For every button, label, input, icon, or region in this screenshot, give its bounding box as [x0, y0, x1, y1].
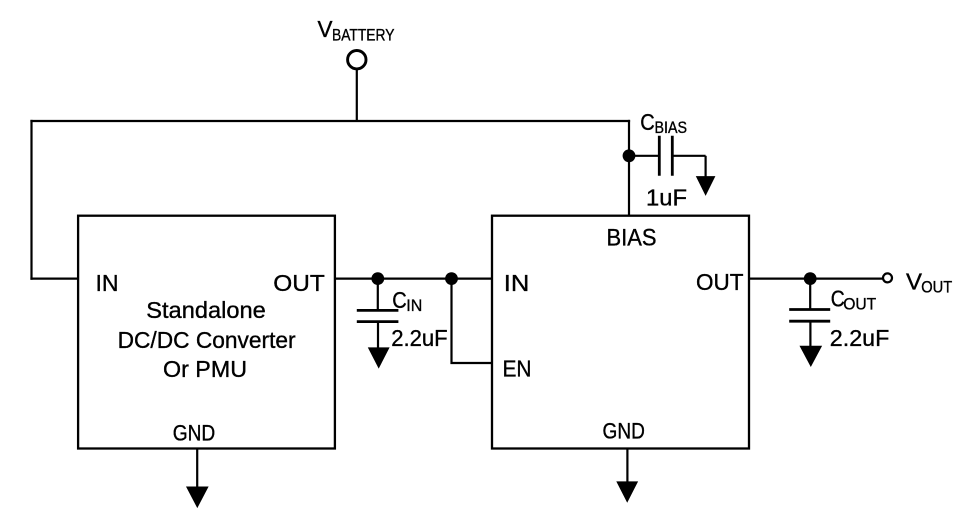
ground: right GND arrow — [617, 482, 637, 502]
wire: COUT drop — [809, 279, 811, 310]
ground: left GND arrow — [187, 487, 208, 507]
svg-text:BIAS: BIAS — [655, 119, 688, 137]
wire: CIN drop — [377, 279, 379, 311]
junction dot: EN node — [445, 272, 458, 285]
wire: CBIAS left lead — [629, 155, 658, 157]
svg-text:2.2uF: 2.2uF — [830, 325, 890, 351]
svg-text:OUT: OUT — [921, 278, 952, 296]
terminal: VOUT open circle — [883, 273, 892, 282]
wire: right GND lead — [626, 448, 628, 484]
capacitor CBIAS plates — [659, 136, 672, 176]
svg-text:C: C — [640, 109, 655, 135]
ground: CBIAS arrow — [697, 177, 715, 195]
junction dot: COUT node — [804, 272, 817, 285]
svg-text:DC/DC Converter: DC/DC Converter — [118, 327, 296, 353]
wire: left riser — [30, 120, 32, 280]
svg-text:2.2uF: 2.2uF — [391, 325, 448, 351]
wire: OUT-to-IN bus between boxes — [334, 278, 493, 280]
junction dot: BIAS node — [623, 149, 636, 162]
wire: left GND lead — [196, 448, 198, 489]
ground: COUT arrow — [800, 346, 821, 366]
svg-text:GND: GND — [173, 420, 216, 445]
wire: VBATTERY drop — [356, 69, 358, 122]
svg-text:IN: IN — [96, 270, 119, 296]
capacitor COUT plates — [789, 310, 830, 322]
svg-text:IN: IN — [406, 297, 422, 315]
terminal: VBATTERY open circle — [348, 51, 366, 69]
svg-text:1uF: 1uF — [646, 185, 687, 211]
ground: CIN arrow — [369, 348, 389, 368]
svg-text:BATTERY: BATTERY — [332, 27, 395, 45]
svg-text:OUT: OUT — [843, 295, 876, 313]
box: LDO with BIAS/IN/EN/OUT/GND — [492, 216, 749, 449]
wire: IN stub into left box — [30, 278, 79, 280]
wire: CBIAS right lead — [672, 155, 706, 157]
wire: CBIAS ground drop — [704, 156, 706, 179]
svg-text:V: V — [906, 269, 923, 295]
svg-text:GND: GND — [603, 418, 645, 443]
svg-text:BIAS: BIAS — [607, 225, 657, 252]
svg-text:Standalone: Standalone — [146, 297, 266, 323]
junction dot: CIN node — [371, 272, 384, 285]
wire: EN branch — [452, 278, 493, 364]
capacitor CIN plates — [357, 310, 399, 321]
svg-text:OUT: OUT — [696, 269, 744, 295]
svg-text:OUT: OUT — [273, 270, 325, 296]
wire: COUT ground lead — [809, 321, 811, 347]
svg-text:C: C — [392, 287, 407, 313]
box: Standalone DC/DC Converter or PMU — [78, 216, 335, 449]
svg-text:EN: EN — [503, 356, 532, 382]
wire: CIN ground lead — [377, 322, 379, 350]
wire: OUT to VOUT terminal — [748, 278, 883, 280]
wire: top bus — [30, 120, 630, 122]
svg-text:V: V — [318, 16, 334, 42]
svg-text:IN: IN — [504, 270, 530, 296]
svg-text:Or PMU: Or PMU — [163, 356, 247, 382]
wire: BIAS branch drop — [628, 120, 630, 217]
